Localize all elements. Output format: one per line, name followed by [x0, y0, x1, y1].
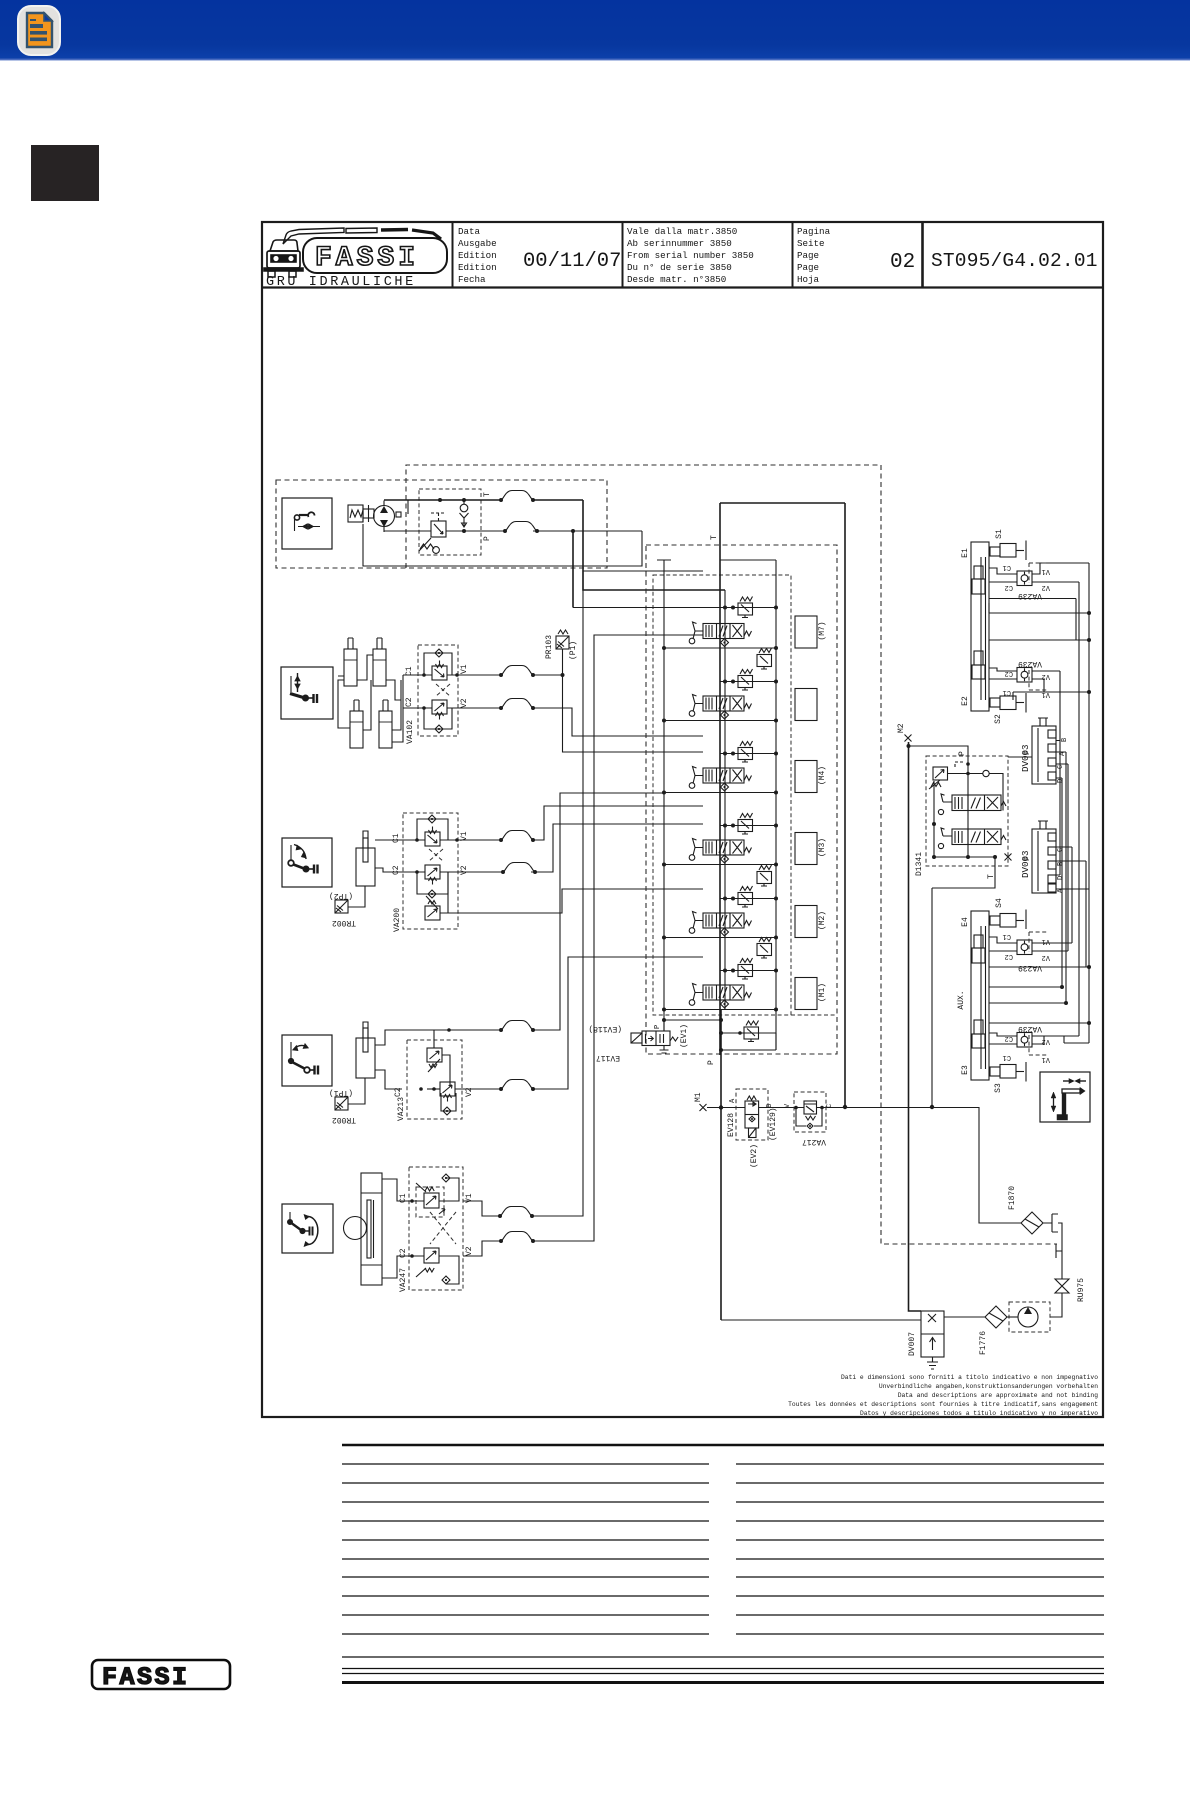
wire V1 out with arc — [447, 674, 501, 676]
svg-text:A: A — [729, 1098, 737, 1103]
counterbalance V2 — [432, 700, 447, 720]
svg-text:B: B — [766, 1104, 774, 1108]
svg-text:C2: C2 — [1005, 952, 1013, 960]
svg-text:D: D — [1057, 779, 1065, 783]
rack and pinion actuator — [361, 1173, 382, 1285]
svg-text:FASSI: FASSI — [102, 1663, 190, 1692]
icon box: extension — [1040, 1072, 1090, 1122]
svg-text:C1: C1 — [392, 833, 401, 843]
wire: bank T return to right riser — [720, 503, 845, 1107]
inner dashed + valves — [416, 1187, 444, 1217]
feed lines E1/E2 — [989, 599, 1089, 693]
svg-text:C2: C2 — [1005, 583, 1013, 591]
svg-text:Datos y descripciones todos a: Datos y descripciones todos a titulo ind… — [860, 1410, 1098, 1417]
svg-text:(EV129): (EV129) — [769, 1107, 778, 1141]
right bus verticals — [1088, 563, 1090, 1043]
PR103 transducer — [556, 636, 569, 649]
svg-text:VA247: VA247 — [399, 1268, 408, 1292]
svg-text:F1870: F1870 — [1008, 1186, 1017, 1210]
svg-text:E4: E4 — [961, 917, 970, 927]
TR002 transducer — [335, 900, 348, 913]
right bus — [720, 560, 777, 1050]
wire: pump lower line to relief — [384, 530, 505, 532]
inner dashed box relief — [419, 489, 481, 555]
M2 test point — [905, 735, 912, 742]
valve module (M2) — [662, 865, 827, 940]
svg-text:C2: C2 — [1005, 669, 1013, 677]
VA102 dashed box — [418, 645, 458, 736]
tank pump unit — [1007, 1302, 1050, 1332]
return line to bank P drop — [721, 1319, 921, 1321]
svg-text:VA217: VA217 — [802, 1137, 826, 1146]
svg-text:(M3): (M3) — [818, 838, 827, 857]
disclaimer — [788, 1374, 1098, 1417]
svg-text:GRU IDRAULICHE: GRU IDRAULICHE — [266, 275, 416, 290]
VA200 dashed box — [403, 813, 458, 929]
DV003 lower — [1020, 821, 1089, 967]
svg-text:V2: V2 — [465, 1087, 474, 1097]
S1 piston — [990, 547, 1000, 556]
svg-text:V2: V2 — [465, 1246, 474, 1256]
svg-text:Page: Page — [797, 262, 819, 273]
svg-text:T: T — [710, 535, 719, 540]
P gallery — [724, 590, 726, 1010]
check diamond top — [424, 653, 452, 675]
RU975 shutoff — [1050, 1278, 1086, 1317]
feed lines E3/E4 — [989, 967, 1089, 1023]
svg-text:ST095/G4.02.01: ST095/G4.02.01 — [931, 250, 1098, 272]
M1 test point and main line — [700, 1104, 707, 1111]
E1/E2 extension cylinder block — [961, 529, 1026, 724]
svg-text:V: V — [784, 1103, 792, 1108]
wire C1 — [403, 674, 432, 676]
svg-text:Unverbindliche angaben,konstru: Unverbindliche angaben,konstruktionsande… — [879, 1383, 1098, 1390]
svg-text:V2: V2 — [1042, 672, 1050, 680]
crossing dashes — [430, 1212, 456, 1244]
V1 out — [463, 1201, 500, 1216]
outer frame — [262, 222, 1103, 1417]
D1341 module A — [938, 794, 1006, 815]
DV003 upper — [1008, 718, 1069, 784]
svg-text:Data and descriptions are appr: Data and descriptions are approximate an… — [898, 1392, 1098, 1399]
crossing pilot dashes — [429, 849, 443, 861]
svg-text:VA200: VA200 — [393, 908, 402, 932]
svg-text:Edition: Edition — [458, 262, 497, 273]
P exit lower — [720, 1010, 722, 1320]
svg-text:DV003: DV003 — [1020, 850, 1031, 878]
FASSI logo bottom — [92, 1660, 230, 1689]
svg-text:V2: V2 — [460, 698, 469, 708]
svg-text:S4: S4 — [995, 898, 1004, 908]
VA239 E4 — [989, 932, 1072, 972]
svg-text:S1: S1 — [995, 529, 1004, 539]
T main line — [719, 503, 721, 1055]
big dashed region boundary — [406, 465, 1057, 1244]
VA239 E2 — [989, 659, 1089, 698]
svg-text:V2: V2 — [1042, 1037, 1050, 1045]
svg-text:VA213: VA213 — [397, 1097, 406, 1121]
hose arc on P line — [499, 491, 535, 503]
svg-text:P: P — [483, 536, 492, 541]
stabilizer cylinders (4) — [338, 638, 403, 748]
svg-text:D: D — [1057, 876, 1065, 880]
svg-text:Vale dalla matr.3850: Vale dalla matr.3850 — [627, 226, 737, 237]
cell 2: date labels — [458, 226, 497, 285]
svg-text:C2: C2 — [405, 697, 414, 707]
svg-text:V1: V1 — [1042, 937, 1050, 945]
svg-text:Du n° de serie 3850: Du n° de serie 3850 — [627, 262, 732, 273]
drain wire — [448, 889, 703, 913]
svg-text:S2: S2 — [994, 714, 1003, 724]
svg-text:(M1): (M1) — [818, 983, 827, 1002]
svg-text:Hoja: Hoja — [797, 274, 820, 285]
svg-text:(M4): (M4) — [818, 766, 827, 785]
svg-text:C1: C1 — [1003, 1053, 1011, 1061]
pump group — [276, 465, 1057, 1244]
icon box: second boom — [282, 1035, 332, 1086]
svg-text:B: B — [1057, 862, 1065, 866]
svg-text:V1: V1 — [1042, 567, 1050, 575]
boom cylinder — [356, 848, 375, 886]
svg-text:V2: V2 — [460, 865, 469, 875]
svg-text:B: B — [1061, 738, 1069, 742]
svg-text:(M7): (M7) — [818, 621, 827, 640]
truck cab — [270, 240, 298, 251]
svg-text:EV117: EV117 — [596, 1053, 620, 1062]
crossing pilot dashes — [436, 684, 450, 696]
svg-text:VA102: VA102 — [406, 720, 415, 744]
valve module (M7) — [573, 597, 827, 651]
bank bottom pilot relief — [662, 1018, 776, 1052]
svg-text:DV003: DV003 — [1020, 744, 1031, 772]
svg-text:PR103: PR103 — [545, 635, 554, 659]
svg-text:S3: S3 — [994, 1083, 1003, 1093]
svg-text:E2: E2 — [961, 696, 970, 706]
D1341 bus + T line — [933, 781, 935, 857]
svg-text:Data: Data — [458, 226, 481, 237]
svg-text:P: P — [707, 1060, 716, 1065]
document icon plate — [18, 6, 60, 55]
wire: riser to bank feed — [583, 500, 725, 590]
FASSI oval badge — [303, 238, 447, 273]
check valve — [460, 504, 468, 512]
left actuator groups — [281, 571, 703, 1292]
header blue bar — [0, 0, 1190, 60]
svg-text:00/11/07: 00/11/07 — [523, 250, 621, 273]
main valve bank — [646, 503, 837, 1320]
svg-text:(TP1): (TP1) — [329, 1088, 353, 1097]
svg-text:C: C — [826, 1104, 834, 1108]
svg-text:V2: V2 — [1042, 583, 1050, 591]
svg-text:(EV118): (EV118) — [588, 1024, 622, 1033]
svg-text:V2: V2 — [1042, 953, 1050, 961]
EV128 solenoid valve — [727, 1089, 778, 1168]
wire PR103 to V1 junction, down to bank — [563, 649, 704, 752]
valve module (M4) — [662, 741, 827, 795]
svg-text:AUX.: AUX. — [957, 990, 966, 1009]
svg-text:C2: C2 — [394, 1087, 403, 1097]
subplate boundary — [363, 524, 642, 566]
svg-text:EV128: EV128 — [727, 1113, 736, 1137]
svg-text:(TP2): (TP2) — [329, 891, 353, 900]
D1341 relief — [933, 767, 948, 780]
VA239 E1 — [989, 563, 1089, 600]
DV007 diverter — [908, 1311, 944, 1369]
F1776 filter — [944, 1306, 1007, 1355]
wire V2 out with arc — [447, 707, 501, 709]
svg-text:V1: V1 — [1042, 690, 1050, 698]
VA217 relief — [784, 1092, 834, 1146]
wire C2 — [403, 707, 432, 709]
svg-text:(EV2): (EV2) — [750, 1144, 759, 1168]
icon box: rotation — [282, 1204, 333, 1253]
svg-text:V1: V1 — [1042, 1055, 1050, 1063]
svg-text:Fecha: Fecha — [458, 274, 486, 285]
cell 4: page — [797, 226, 831, 285]
EV117 solenoid valve — [588, 1020, 689, 1062]
tank line with cap — [657, 560, 671, 1031]
svg-text:02: 02 — [890, 251, 915, 274]
svg-text:Desde matr. n°3850: Desde matr. n°3850 — [627, 274, 726, 285]
svg-text:FASSI: FASSI — [315, 243, 419, 274]
svg-text:C2: C2 — [392, 865, 401, 875]
svg-text:Seite: Seite — [797, 238, 825, 249]
pressure relief valve — [431, 521, 446, 537]
svg-text:D1341: D1341 — [915, 852, 924, 876]
title block bottom line — [262, 286, 1103, 288]
svg-text:E3: E3 — [961, 1065, 970, 1075]
crane boom polyline — [283, 228, 344, 244]
valve module M5/M6 — [662, 648, 817, 723]
E4/AUX/E3 extension cylinder block — [957, 898, 1026, 1093]
svg-text:T: T — [987, 874, 996, 879]
valve module (M1) — [662, 937, 827, 1012]
svg-text:(M2): (M2) — [818, 911, 827, 930]
svg-text:M1: M1 — [694, 1092, 703, 1102]
V2 valve — [440, 1082, 455, 1102]
svg-text:TR002: TR002 — [332, 1115, 356, 1124]
svg-text:Ausgabe: Ausgabe — [458, 238, 497, 249]
hose arc on T line — [503, 522, 539, 534]
check diamond bottom — [424, 708, 452, 729]
svg-text:C1: C1 — [1003, 563, 1011, 571]
svg-text:V1: V1 — [460, 664, 469, 674]
prime mover with spring (drive) — [348, 505, 363, 522]
black square — [31, 145, 99, 201]
svg-text:P: P — [1023, 856, 1032, 861]
frame and title block — [262, 222, 1103, 1417]
svg-text:C: C — [1057, 765, 1065, 769]
icon box: outrigger — [281, 667, 333, 719]
svg-text:Edition: Edition — [458, 250, 497, 261]
wires — [375, 1030, 501, 1045]
document icon — [27, 13, 52, 47]
pump outer dashed box — [276, 480, 607, 568]
valve module (M3) — [662, 813, 827, 867]
svg-text:RU975: RU975 — [1077, 1278, 1086, 1302]
right assembly — [897, 529, 1091, 1311]
svg-text:Dati e dimensioni sono forniti: Dati e dimensioni sono forniti a titolo … — [841, 1374, 1098, 1381]
svg-text:F1776: F1776 — [979, 1331, 988, 1355]
svg-text:C1: C1 — [1003, 932, 1011, 940]
bottom right components — [694, 1089, 1086, 1369]
wire: T line to bank riser — [572, 531, 574, 608]
svg-text:VA239: VA239 — [1018, 1024, 1042, 1033]
wires C1/C2 — [375, 839, 425, 841]
svg-text:C: C — [1057, 848, 1065, 852]
svg-text:Page: Page — [797, 250, 819, 261]
pump P circle — [374, 506, 395, 527]
D1341 module B — [938, 828, 1006, 849]
VA247 dashed box — [409, 1167, 463, 1290]
cell 3: serial — [627, 226, 754, 285]
VA239 E3 — [989, 1024, 1079, 1063]
VA213 dashed box — [407, 1040, 462, 1119]
icon box: first boom — [282, 838, 332, 887]
bank dashed enclosure — [646, 545, 837, 1054]
svg-text:Ab serinnummer 3850: Ab serinnummer 3850 — [627, 238, 732, 249]
counterbalance V1 — [432, 661, 447, 681]
svg-text:From serial number 3850: From serial number 3850 — [627, 250, 754, 261]
svg-text:P: P — [654, 1025, 662, 1029]
interconnect wires — [338, 655, 401, 730]
M2 to D1341 P — [909, 746, 969, 857]
title block vertical dividers — [452, 222, 454, 287]
svg-text:VA239: VA239 — [1018, 659, 1042, 668]
svg-text:P: P — [958, 751, 967, 756]
svg-text:E1: E1 — [961, 548, 970, 558]
svg-text:M2: M2 — [897, 723, 906, 733]
wires — [382, 1179, 424, 1201]
svg-text:(P1): (P1) — [569, 641, 578, 660]
svg-text:Toutes les données et descript: Toutes les données et descriptions sont … — [788, 1401, 1098, 1408]
svg-text:P: P — [1023, 750, 1032, 755]
top valve — [427, 1048, 442, 1062]
svg-text:TR002: TR002 — [332, 918, 356, 927]
svg-text:(EV1): (EV1) — [680, 1024, 689, 1048]
wire: pump top P line — [384, 499, 500, 501]
F1870 filter — [1008, 1186, 1062, 1279]
svg-text:C2: C2 — [1005, 1034, 1013, 1042]
D1341 dashed box — [926, 756, 1008, 866]
icon box: hook/pump icon — [282, 498, 332, 549]
wire V1 with arc to bank — [440, 839, 501, 841]
svg-text:T: T — [483, 492, 492, 497]
svg-text:DV007: DV007 — [908, 1332, 917, 1356]
V2 out — [463, 1241, 501, 1256]
wire: pump lower line to subplate edge — [533, 530, 642, 532]
svg-text:Pagina: Pagina — [797, 226, 831, 237]
wire: pump top line to riser — [533, 499, 583, 501]
bottom table and logo — [92, 1445, 1104, 1692]
wire V2 with arc to bank — [440, 871, 503, 873]
FASSI truck logo — [264, 228, 447, 277]
boom cylinder 2 — [356, 1038, 375, 1078]
svg-text:C1: C1 — [1003, 688, 1011, 696]
S2 piston — [990, 698, 1000, 707]
TR002 transducer 2 — [335, 1097, 348, 1110]
